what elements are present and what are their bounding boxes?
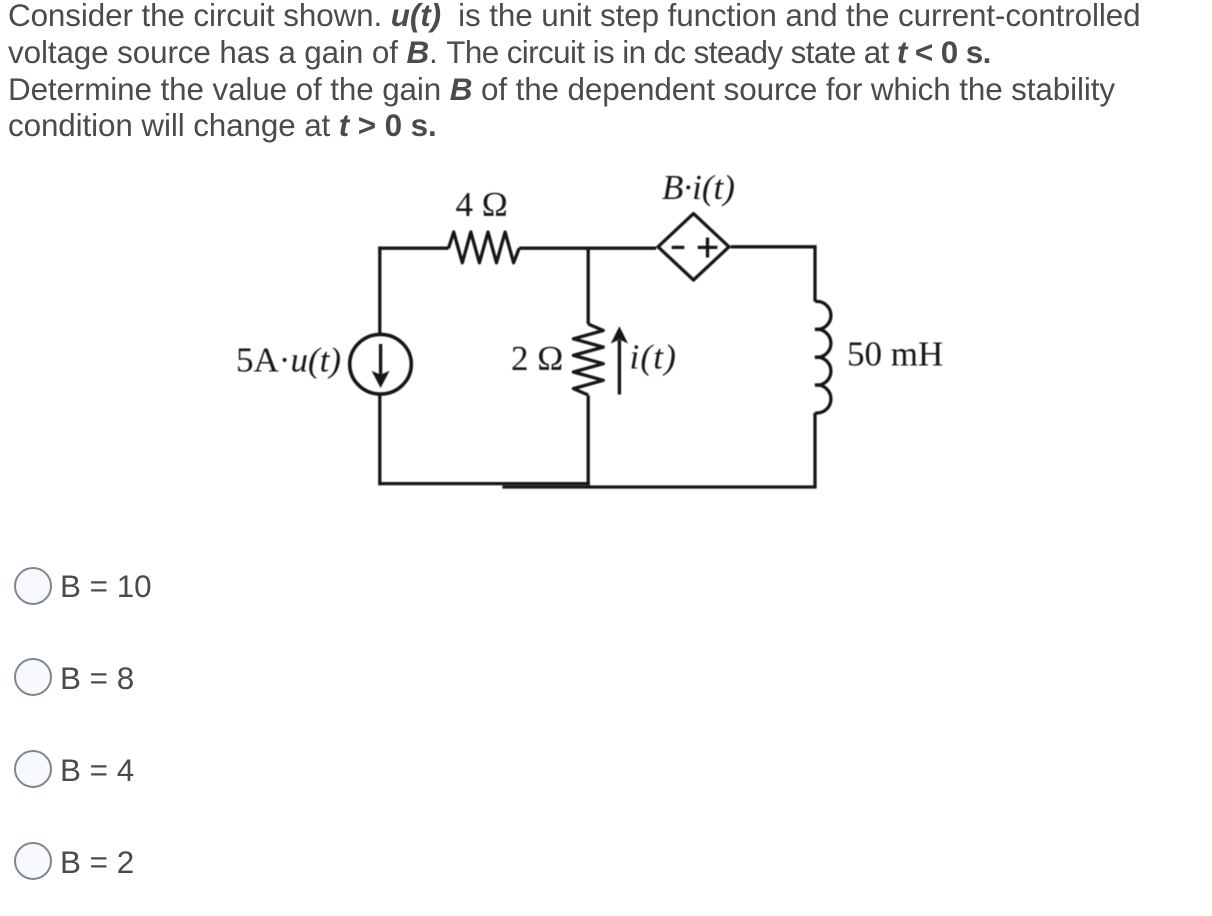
radio option B = 10: [14, 567, 52, 605]
wire inductor to bottom-right corner: [813, 413, 816, 487]
resistor 2 Ohm: [573, 324, 603, 395]
wire middle node to dependent source: [588, 247, 656, 250]
wire middle vertical bottom segment: [587, 395, 590, 485]
current source arrow: [372, 344, 390, 388]
value label 50 mH: [847, 334, 943, 373]
value label i(t): [630, 338, 678, 377]
wire bottom-right horizontal: [502, 485, 816, 488]
wire left vertical bottom segment: [378, 394, 381, 485]
wire dependent source to top-right corner: [731, 247, 815, 302]
radio option B = 2: [14, 842, 52, 880]
wire top-left horizontal: [378, 247, 448, 250]
radio option B = 8: [14, 658, 52, 696]
value label 2 Ohm: [511, 339, 563, 378]
wire left vertical top segment: [378, 247, 381, 335]
resistor 4 Ohm: [449, 232, 520, 263]
svg-text:50 mH: 50 mH: [847, 334, 943, 373]
question text: [8, 0, 1140, 145]
current source 5A·u(t) circle: [350, 334, 412, 394]
svg-text:i(t): i(t): [630, 338, 678, 377]
wire bottom-left horizontal: [378, 482, 590, 485]
svg-text:4 Ω: 4 Ω: [456, 185, 508, 224]
value label B·i(t): [662, 168, 735, 207]
inductor 50 mH: [815, 301, 831, 413]
svg-text:5A·u(t): 5A·u(t): [236, 341, 341, 380]
current arrow i(t): [611, 326, 628, 394]
wire middle vertical top segment: [587, 248, 590, 324]
wire resistor to middle node: [519, 247, 588, 250]
dependent voltage source B·i(t) diamond: [658, 214, 729, 280]
svg-text:2 Ω: 2 Ω: [511, 339, 563, 378]
radio option B = 4: [14, 750, 52, 788]
value label 4 Ohm: [456, 185, 508, 224]
value label 5A·u(t): [236, 341, 341, 380]
minus sign inside source: [672, 246, 685, 249]
plus sign inside source: [698, 238, 718, 258]
svg-text:B·i(t): B·i(t): [662, 168, 735, 207]
